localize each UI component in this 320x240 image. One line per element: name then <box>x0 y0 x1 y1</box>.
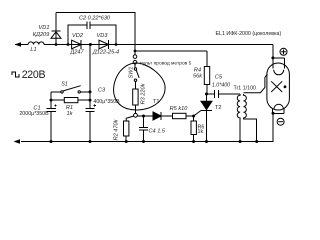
svg-text:SW1: SW1 <box>128 67 134 79</box>
svg-text:VD2: VD2 <box>72 33 84 39</box>
svg-text:R3 220k: R3 220k <box>141 82 147 104</box>
node S1 right <box>89 90 92 93</box>
wire bottom AC rail with input arrow <box>14 139 257 144</box>
svg-text:C2 0.22*630: C2 0.22*630 <box>79 16 111 22</box>
svg-text:VD1: VD1 <box>39 25 50 31</box>
node lamp cathode feed <box>272 112 275 115</box>
svg-text:Д247: Д247 <box>69 50 84 56</box>
svg-text:EL1 ИФК-2000 (цоколевка): EL1 ИФК-2000 (цоколевка) <box>216 31 282 37</box>
polarity minus symbol <box>277 118 284 125</box>
node main-VD1 <box>55 43 58 46</box>
svg-text:2000µ*350В: 2000µ*350В <box>19 111 49 117</box>
capacitor C2 0.22*630 <box>68 16 116 45</box>
node Tr1 primary bottom <box>239 140 242 143</box>
wire trigger node to T1 <box>137 115 153 117</box>
node T2 cathode bottom <box>205 140 208 143</box>
thyristor T2 <box>201 94 222 142</box>
node C3 bottom <box>89 140 92 143</box>
svg-text:КД209: КД209 <box>33 32 50 38</box>
transformer Tr1 1/100 <box>234 74 268 142</box>
resistor R3 220k <box>133 82 147 113</box>
node R1 right <box>89 99 92 102</box>
node C2 right <box>115 43 118 46</box>
node C2 left <box>67 43 70 46</box>
polarity plus symbol <box>280 48 287 55</box>
svg-text:T2: T2 <box>215 105 222 111</box>
remote control enclosure outline <box>114 63 166 110</box>
svg-text:1k: 1k <box>198 129 204 135</box>
resistor R4 56k <box>193 51 210 94</box>
wire doubler tap down to capacitor bank <box>89 45 91 92</box>
node gate junction <box>192 115 195 118</box>
resistor R5 k10 <box>170 106 194 119</box>
svg-text:C3: C3 <box>98 87 106 93</box>
node C1 bottom <box>50 140 53 143</box>
switch S1 <box>51 82 90 101</box>
svg-text:пульт провод метров 5: пульт провод метров 5 <box>140 61 192 67</box>
diode VD1 КД209 <box>33 13 61 45</box>
capacitor C5 1.0*400 <box>207 74 241 98</box>
svg-text:C5: C5 <box>215 74 223 80</box>
svg-text:1.0*400: 1.0*400 <box>212 83 230 89</box>
svg-text:VD3: VD3 <box>97 33 109 39</box>
capacitor C4 1.5 <box>139 116 166 142</box>
svg-text:R5 k10: R5 k10 <box>170 106 189 112</box>
wire rail step to lamp cathode <box>257 113 273 141</box>
svg-text:L1: L1 <box>30 47 36 53</box>
terminal plug upper <box>133 52 137 58</box>
svg-text:S1: S1 <box>61 82 67 88</box>
resistor R1 <box>51 98 90 118</box>
svg-text:R2 470k: R2 470k <box>114 118 120 140</box>
capacitor C3 400u*350V <box>85 87 120 141</box>
node boost rail tap <box>134 50 137 53</box>
inductor L1 <box>28 42 44 53</box>
wire gate to thyristor <box>194 111 201 117</box>
terminal trigger node <box>134 113 138 117</box>
svg-text:R4: R4 <box>194 68 201 74</box>
switch SW1 <box>128 67 139 89</box>
svg-text:T1: T1 <box>153 99 160 105</box>
AC source label 220V <box>12 69 45 81</box>
node C1-R1 <box>50 99 53 102</box>
wire main top AC line with input arrow <box>15 42 273 58</box>
node C4 top <box>142 115 145 118</box>
resistor R2 470k <box>114 116 134 142</box>
node lamp anode feed <box>271 56 274 59</box>
diode VD2 Д247 <box>69 33 84 56</box>
svg-text:Д122-25-4: Д122-25-4 <box>92 50 119 56</box>
node VD2-VD3 junction <box>89 43 92 46</box>
flash lamp EL1 envelope <box>267 58 290 113</box>
node R2 bottom <box>125 140 128 143</box>
svg-text:C4 1.5: C4 1.5 <box>149 129 166 135</box>
svg-text:220В: 220В <box>22 69 46 81</box>
wire VD1 top to connector column <box>56 13 135 52</box>
node C4 bottom <box>142 140 145 143</box>
diode VD3 Д122-25-4 <box>92 33 119 56</box>
resistor R6 1k <box>191 116 204 142</box>
wire boost rail to R4 <box>135 50 207 52</box>
terminal socket lower <box>133 60 137 67</box>
node T2 anode <box>205 93 208 96</box>
svg-text:Tr1 1/100: Tr1 1/100 <box>234 85 257 91</box>
diode T1 <box>153 99 173 120</box>
capacitor C1 2000u*350V <box>19 100 56 141</box>
svg-text:56k: 56k <box>193 74 203 80</box>
node Tr1 secondary bottom <box>255 140 258 143</box>
node R6 bottom <box>192 140 195 143</box>
